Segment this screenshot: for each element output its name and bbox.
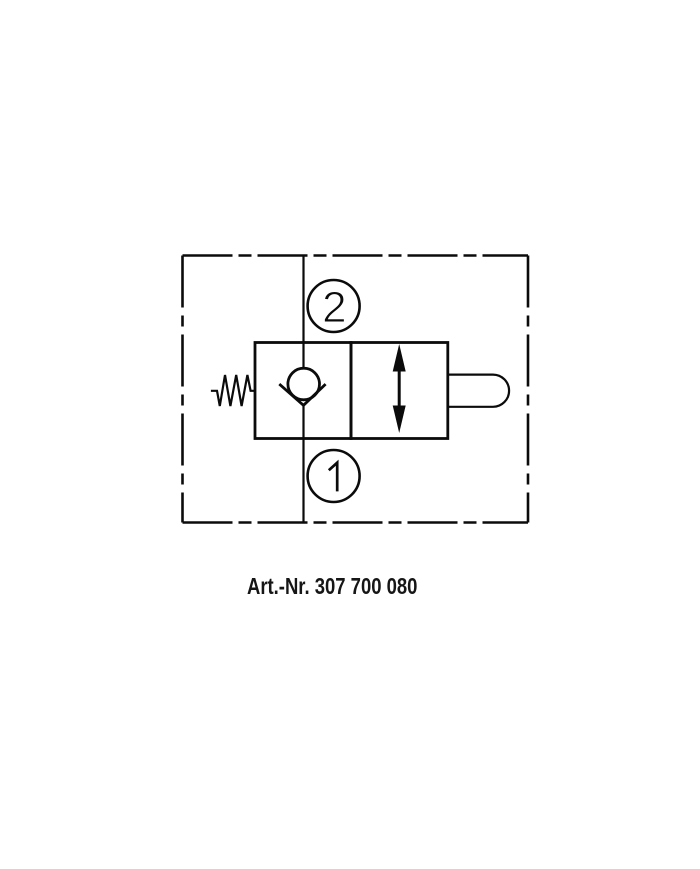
check valve body box bbox=[255, 343, 351, 439]
caption: article number bbox=[247, 573, 417, 600]
valve envelope (dashed boundary) bbox=[183, 256, 529, 523]
flow arrow (double-headed) in pilot box bbox=[393, 344, 406, 433]
spring bbox=[211, 375, 255, 406]
node port 1 bbox=[308, 450, 360, 502]
pilot section box bbox=[351, 343, 448, 439]
check valve seat bbox=[279, 384, 325, 405]
check valve poppet ball bbox=[288, 368, 320, 400]
wire: vertical flow line from check valve seat to port 1 bbox=[302, 405, 304, 523]
svg-text:2: 2 bbox=[322, 283, 346, 332]
wire: vertical flow line from port 2 to check valve bbox=[302, 256, 304, 370]
node port 2 bbox=[308, 280, 360, 332]
plug / actuator cap bbox=[448, 375, 509, 407]
